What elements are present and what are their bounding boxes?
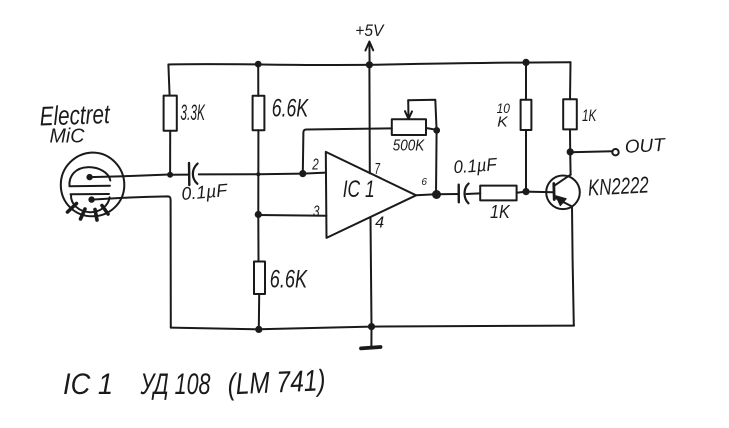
potentiometer R4 500K body	[392, 119, 426, 135]
resistor R7 1K vertical	[563, 62, 577, 152]
resistor R3 6.6K bottom	[254, 215, 265, 330]
pot wiper arrow	[405, 100, 412, 119]
transistor Q1 KN2222	[546, 175, 580, 210]
wire pin4 to rail	[371, 217, 372, 326]
node pin3 divider	[255, 211, 262, 218]
wire feedback up from pin2	[303, 128, 392, 173]
svg-text:MiC: MiC	[50, 126, 86, 148]
svg-text:500K: 500K	[393, 138, 426, 155]
svg-text:6.6K: 6.6K	[270, 266, 308, 294]
node mic / R1 / C1	[167, 172, 173, 178]
resistor R5 1K horizontal	[480, 186, 526, 201]
node OUT	[567, 148, 574, 155]
svg-text:7: 7	[375, 161, 381, 178]
wire pin2 into op-amp	[303, 173, 326, 174]
svg-text:IC 1: IC 1	[343, 176, 375, 203]
node pot right	[433, 127, 440, 134]
wire base	[526, 191, 554, 194]
node bottom rail / ground	[368, 323, 375, 330]
op-amp U1 triangle	[326, 152, 416, 238]
node output pin6	[432, 190, 441, 199]
terminal OUT circle	[612, 149, 618, 155]
svg-text:2: 2	[312, 157, 319, 174]
resistor R1 3.3K	[164, 65, 177, 175]
node top rail / 10K	[522, 59, 529, 66]
node pin2 feedback	[299, 170, 306, 177]
wire top rail	[169, 62, 571, 65]
ground	[361, 327, 381, 349]
svg-text:0.1µF: 0.1µF	[181, 180, 229, 204]
wire pot right lead	[426, 128, 437, 130]
resistor R2 6.6K top	[253, 64, 265, 214]
svg-text:4: 4	[375, 214, 384, 231]
power +5V arrow	[365, 42, 373, 65]
svg-text:1K: 1K	[490, 202, 511, 222]
wire emitter down to rail	[572, 207, 574, 326]
wire op-amp output	[416, 194, 458, 195]
node base / 10K	[522, 188, 529, 195]
wire C1 to pin2 (crosses R2 column)	[258, 173, 303, 176]
svg-text:IC 1: IC 1	[63, 368, 113, 401]
microphone M1 electret	[61, 153, 125, 221]
svg-text:3.3K: 3.3K	[180, 100, 205, 125]
svg-text:+5V: +5V	[355, 21, 385, 40]
wire pin3	[258, 214, 326, 217]
wire collector from OUT node	[569, 152, 571, 175]
node bottom rail / R3	[255, 326, 262, 333]
wire OUT	[570, 151, 612, 152]
svg-text:1K: 1K	[582, 106, 597, 125]
capacitor C2 0.1uF	[459, 184, 481, 204]
wire wiper to right lead	[408, 100, 436, 195]
node top rail / +5V	[366, 61, 373, 68]
svg-text:OUT: OUT	[624, 134, 667, 157]
resistor R6 10K	[521, 62, 532, 191]
svg-text:KN2222: KN2222	[587, 171, 649, 200]
wire mic top to C1 node	[90, 175, 171, 178]
svg-text:0.1µF: 0.1µF	[453, 154, 498, 177]
capacitor C1 0.1uF	[170, 163, 258, 185]
wire bottom rail	[171, 326, 574, 330]
svg-text:6: 6	[421, 177, 427, 188]
svg-text:УД 108: УД 108	[140, 368, 211, 401]
wire mic bottom to ground rail	[92, 196, 171, 327]
svg-text:(LM 741): (LM 741)	[227, 364, 326, 401]
svg-text:3: 3	[313, 204, 320, 221]
wire pin7 from rail	[368, 65, 370, 174]
svg-text:6.6K: 6.6K	[272, 94, 309, 122]
svg-text:K: K	[497, 114, 508, 131]
junction blob at R2 column crossing	[256, 172, 260, 176]
node top rail / R2	[255, 61, 262, 68]
